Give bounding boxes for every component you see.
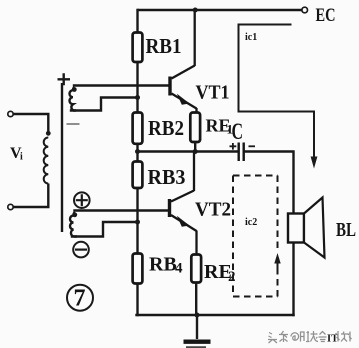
capacitor C plates	[239, 143, 244, 162]
plus polarity mark upper secondary	[58, 73, 71, 85]
svg-text:2: 2	[228, 269, 236, 285]
transformer core	[61, 83, 63, 232]
svg-text:ic2: ic2	[245, 217, 257, 228]
input terminal top	[8, 111, 13, 116]
wire capacitor to speaker	[245, 152, 294, 214]
wire VT2 base from transformer	[75, 209, 169, 211]
resistor RB1	[133, 33, 143, 63]
input terminal bottom	[8, 204, 13, 209]
wire lower secondary lower terminal step to RB3/RB4 node	[72, 222, 138, 237]
transformer T1 primary winding	[44, 138, 49, 184]
current path ic1 with arrow	[239, 25, 315, 159]
resistor RE2	[191, 255, 201, 283]
phase dot lower secondary	[72, 212, 77, 217]
wire input bottom	[13, 184, 48, 208]
arrow emitter VT1	[177, 94, 190, 105]
watermark strokes	[268, 331, 327, 343]
wire RE1 bottom stub	[194, 142, 196, 152]
svg-text:EC: EC	[316, 5, 336, 26]
terminal EC	[302, 7, 308, 13]
transistor VT1	[170, 10, 197, 113]
wire top secondary lower terminal step to RB1/RB2 node	[71, 98, 138, 111]
resistor RB3	[133, 162, 143, 189]
minus mark capacitor	[249, 145, 256, 147]
svg-text:RB3: RB3	[148, 165, 186, 189]
wire bottom rail	[137, 314, 294, 316]
svg-text:4: 4	[175, 261, 183, 277]
wire top rail EC	[139, 9, 303, 11]
wire RE2 bottom stub	[195, 283, 197, 316]
svg-text:RB: RB	[149, 254, 177, 276]
junction node ground	[195, 313, 200, 318]
junction node top rail / VT1 collector	[193, 8, 198, 13]
wire input top	[13, 114, 48, 134]
svg-text:RB1: RB1	[146, 34, 182, 58]
wire VT1 base from transformer	[74, 84, 169, 86]
resistor RB2	[133, 113, 143, 144]
svg-text:VT1: VT1	[196, 82, 230, 104]
resistor RE1	[190, 113, 200, 143]
svg-text:IT: IT	[327, 334, 338, 345]
transformer T1 lower secondary winding	[70, 212, 77, 237]
resistor RB4	[133, 254, 143, 284]
junction node RB3/RB4	[135, 220, 140, 225]
phase dot upper secondary	[72, 87, 77, 92]
svg-text:i: i	[20, 152, 23, 163]
junction node RB2/RB3 mid	[135, 149, 140, 154]
plus mark capacitor	[230, 143, 237, 150]
wire speaker bottom to bottom rail	[292, 243, 294, 315]
wire mid node to capacitor	[138, 150, 238, 152]
svg-text:RB2: RB2	[148, 116, 184, 140]
speaker BL horn	[304, 198, 325, 258]
minus polarity mark upper secondary	[67, 123, 80, 125]
ground	[196, 315, 198, 339]
figure number 7 circled	[67, 285, 93, 311]
dashed current loop ic2	[233, 176, 278, 297]
junction node RB1/RB2	[135, 95, 140, 100]
transistor VT2	[170, 152, 197, 255]
arrow ic2 up	[277, 258, 279, 268]
circled minus lower secondary	[73, 242, 89, 258]
svg-text:BL: BL	[336, 219, 356, 241]
junction node RE1 bottom / VT2 collector	[193, 149, 198, 154]
arrow emitter VT2	[177, 216, 190, 227]
svg-text:ic1: ic1	[245, 32, 257, 43]
transformer T1 upper secondary winding	[70, 87, 77, 111]
circled plus lower secondary	[74, 192, 90, 208]
svg-text:C: C	[232, 119, 244, 144]
svg-text:7: 7	[74, 286, 86, 312]
svg-text:VT2: VT2	[195, 199, 231, 221]
speaker BL box	[288, 214, 304, 243]
wire left bias chain vertical	[136, 10, 138, 315]
phase dot primary	[46, 131, 51, 136]
